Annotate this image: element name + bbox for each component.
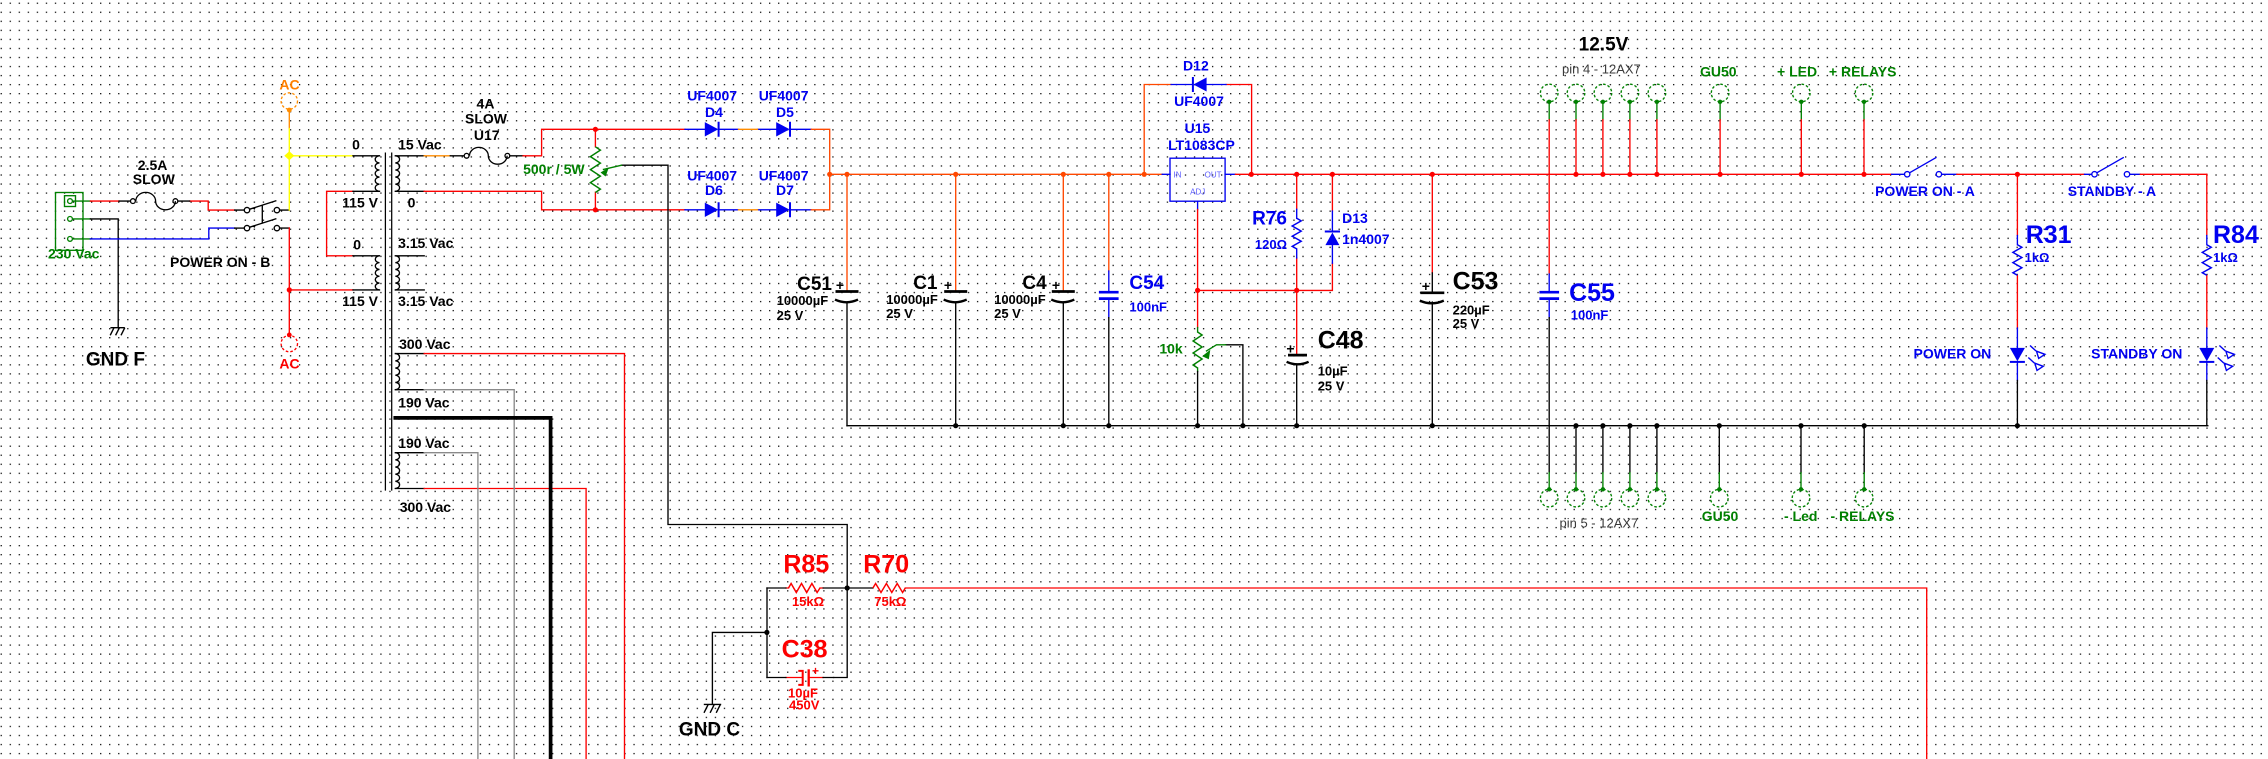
svg-text:LT1083CP: LT1083CP: [1168, 137, 1235, 153]
svg-text:75kΩ: 75kΩ: [874, 594, 906, 609]
svg-text:25 V: 25 V: [994, 306, 1021, 321]
svg-text:C4: C4: [1022, 273, 1047, 294]
svg-text:100nF: 100nF: [1129, 299, 1167, 314]
svg-text:GU50: GU50: [1702, 508, 1739, 524]
svg-text:GND F: GND F: [86, 349, 145, 370]
svg-text:UF4007: UF4007: [759, 168, 809, 184]
svg-text:C54: C54: [1129, 273, 1164, 294]
svg-text:UF4007: UF4007: [1174, 93, 1224, 109]
svg-text:120Ω: 120Ω: [1255, 237, 1287, 252]
svg-text:D7: D7: [776, 182, 794, 198]
svg-text:+: +: [1422, 278, 1430, 294]
svg-text:C53: C53: [1453, 268, 1499, 296]
svg-text:C1: C1: [913, 273, 938, 294]
svg-text:ADJ: ADJ: [1190, 188, 1205, 197]
svg-text:C48: C48: [1318, 326, 1364, 354]
svg-text:UF4007: UF4007: [759, 88, 809, 104]
svg-text:SLOW: SLOW: [133, 171, 176, 187]
svg-text:450V: 450V: [789, 698, 820, 713]
svg-text:15kΩ: 15kΩ: [792, 594, 824, 609]
svg-text:pin 4 - 12AX7: pin 4 - 12AX7: [1562, 62, 1641, 77]
svg-text:C55: C55: [1569, 279, 1615, 307]
svg-text:+: +: [944, 277, 952, 293]
svg-text:R84: R84: [2213, 221, 2259, 249]
svg-text:25 V: 25 V: [1318, 378, 1345, 393]
svg-text:STANDBY - A: STANDBY - A: [2068, 183, 2156, 199]
svg-text:10k: 10k: [1159, 340, 1183, 356]
svg-text:+: +: [1052, 277, 1060, 293]
svg-text:pin 5 - 12AX7: pin 5 - 12AX7: [1560, 515, 1639, 530]
svg-text:AC: AC: [279, 77, 299, 93]
svg-text:UF4007: UF4007: [687, 168, 737, 184]
svg-text:POWER ON - A: POWER ON - A: [1875, 183, 1975, 199]
svg-text:+: +: [812, 664, 819, 678]
svg-text:GND C: GND C: [679, 720, 741, 741]
svg-text:15 Vac: 15 Vac: [398, 137, 442, 153]
svg-text:3.15 Vac: 3.15 Vac: [398, 235, 453, 251]
svg-text:R85: R85: [783, 550, 829, 578]
svg-text:R76: R76: [1252, 209, 1287, 230]
svg-text:10000µF: 10000µF: [777, 293, 829, 308]
svg-text:SLOW: SLOW: [465, 111, 508, 127]
svg-text:25 V: 25 V: [777, 308, 804, 323]
svg-text:R70: R70: [863, 550, 909, 578]
svg-text:U15: U15: [1185, 120, 1211, 136]
svg-text:115 V: 115 V: [342, 195, 378, 211]
svg-text:IN: IN: [1174, 170, 1182, 179]
svg-text:1kΩ: 1kΩ: [2025, 250, 2050, 265]
svg-text:UF4007: UF4007: [687, 88, 737, 104]
svg-text:C38: C38: [782, 636, 828, 664]
svg-text:190 Vac: 190 Vac: [398, 435, 450, 451]
svg-text:D13: D13: [1342, 210, 1368, 226]
svg-text:10000µF: 10000µF: [994, 292, 1046, 307]
svg-text:AC: AC: [279, 356, 299, 372]
svg-text:- RELAYS: - RELAYS: [1830, 508, 1894, 524]
svg-text:OUT: OUT: [1205, 170, 1222, 179]
svg-text:4A: 4A: [477, 96, 495, 112]
svg-text:25 V: 25 V: [1453, 316, 1480, 331]
svg-text:D4: D4: [705, 104, 723, 120]
svg-text:230 Vac: 230 Vac: [48, 246, 100, 262]
svg-text:POWER ON - B: POWER ON - B: [170, 254, 270, 270]
svg-text:300 Vac: 300 Vac: [400, 499, 452, 515]
svg-text:0: 0: [353, 237, 361, 253]
svg-text:D6: D6: [705, 182, 723, 198]
svg-text:1kΩ: 1kΩ: [2213, 250, 2238, 265]
svg-text:12.5V: 12.5V: [1579, 35, 1629, 56]
svg-text:10µF: 10µF: [1318, 364, 1348, 379]
svg-text:300 Vac: 300 Vac: [399, 336, 451, 352]
svg-text:POWER ON: POWER ON: [1914, 346, 1992, 362]
svg-text:115 V: 115 V: [342, 293, 378, 309]
svg-text:+ LED: + LED: [1777, 64, 1817, 80]
svg-text:D12: D12: [1183, 58, 1209, 74]
svg-text:190 Vac: 190 Vac: [398, 395, 450, 411]
svg-text:STANDBY ON: STANDBY ON: [2091, 346, 2182, 362]
svg-text:GU50: GU50: [1700, 64, 1737, 80]
svg-text:D5: D5: [776, 104, 794, 120]
svg-text:- Led: - Led: [1784, 508, 1817, 524]
svg-text:500r / 5W: 500r / 5W: [523, 161, 585, 177]
svg-text:+ RELAYS: + RELAYS: [1829, 64, 1897, 80]
svg-text:10000µF: 10000µF: [886, 292, 938, 307]
svg-text:R31: R31: [2026, 221, 2072, 249]
svg-text:100nF: 100nF: [1571, 307, 1609, 322]
svg-text:1n4007: 1n4007: [1342, 231, 1390, 247]
svg-text:25 V: 25 V: [886, 306, 913, 321]
svg-text:0: 0: [352, 137, 360, 153]
svg-text:U17: U17: [474, 127, 500, 143]
svg-text:3.15 Vac: 3.15 Vac: [398, 293, 453, 309]
svg-text:+: +: [836, 277, 844, 293]
svg-text:0: 0: [408, 195, 416, 211]
svg-text:C51: C51: [797, 274, 832, 295]
svg-text:+: +: [1286, 341, 1294, 357]
